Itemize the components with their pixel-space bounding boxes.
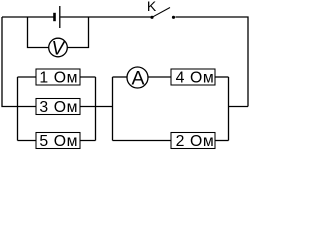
svg-text:A: A (131, 68, 144, 90)
resistor R1 1 Ом (36, 69, 80, 85)
wire: branch 3 leads (18, 140, 96, 142)
wire: R4 to right bus (215, 76, 229, 78)
wire: switch to top right corner and down right edge (175, 17, 248, 107)
wire: ammeter to R4 (148, 76, 171, 78)
wire: voltmeter branch right drop (67, 17, 88, 48)
wire: left bus of left group (17, 77, 19, 141)
wire: left bus of right group (112, 77, 114, 141)
wire: ammeter lead left (113, 76, 128, 78)
wire: right bus of left group (95, 77, 97, 141)
ammeter A (127, 67, 148, 88)
resistor R3 5 Ом (36, 133, 80, 149)
svg-text:1 Ом: 1 Ом (39, 70, 78, 87)
svg-text:3 Ом: 3 Ом (39, 99, 78, 116)
wire: right bus of right group (228, 77, 230, 141)
wire: battery to switch (61, 16, 151, 18)
wire: left edge down from top wire (2, 17, 18, 107)
svg-text:2 Ом: 2 Ом (176, 133, 215, 150)
wire: right connector to right bus (229, 106, 249, 108)
wire: bottom branch lead to R5 (113, 140, 172, 142)
wire: R5 to right bus (215, 140, 229, 142)
svg-text:4 Ом: 4 Ом (176, 70, 215, 87)
wire: connector between groups (96, 106, 113, 108)
wire: voltmeter branch left drop (28, 17, 49, 48)
svg-text:5 Ом: 5 Ом (39, 133, 78, 150)
wire: top left segment to battery (2, 16, 54, 18)
wire: branch 2 leads (18, 106, 96, 108)
resistor R2 3 Ом (36, 99, 80, 115)
voltmeter V (49, 38, 68, 57)
resistor R4 4 Ом (171, 69, 215, 85)
svg-text:K: K (147, 0, 157, 14)
wire: branch 1 leads (18, 76, 96, 78)
battery cell (55, 6, 60, 28)
switch K (150, 8, 175, 19)
resistor R5 2 Ом (171, 133, 215, 149)
